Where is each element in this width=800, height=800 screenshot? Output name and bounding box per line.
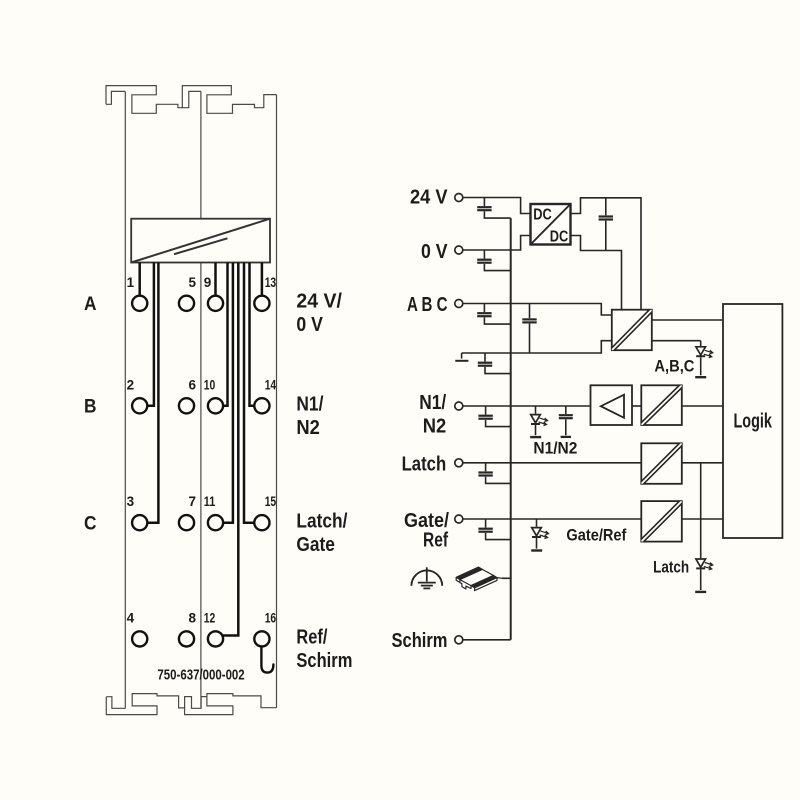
contact 16 — [254, 631, 269, 646]
svg-text:Schirm: Schirm — [296, 650, 352, 672]
wire to contact 9 — [214, 263, 217, 296]
svg-text:A,B,C: A,B,C — [654, 356, 694, 375]
svg-text:Latch/: Latch/ — [296, 511, 347, 533]
wire 0V input — [463, 236, 531, 251]
svg-text:Latch: Latch — [402, 453, 447, 476]
wire Schirm input — [463, 639, 511, 641]
wire 24V input — [463, 198, 531, 214]
terminal ABC — [455, 300, 463, 308]
module middle housing line — [200, 91, 202, 708]
isolation barrier ABC — [612, 310, 652, 351]
svg-text:15: 15 — [265, 494, 277, 509]
wire rail to trunk — [502, 577, 511, 579]
wire Latch input — [463, 462, 642, 464]
svg-text:Gate: Gate — [296, 534, 335, 556]
svg-text:13: 13 — [265, 275, 277, 290]
svg-text:5: 5 — [189, 275, 197, 290]
svg-text:24 V: 24 V — [410, 186, 448, 209]
svg-text:Ref/: Ref/ — [296, 626, 327, 648]
module left housing line — [124, 91, 126, 708]
wire Latch barrier to Logik — [682, 462, 723, 464]
contact 7 — [179, 515, 194, 530]
svg-text:N1/: N1/ — [296, 394, 323, 416]
wire to contact 2 — [148, 263, 154, 406]
terminal Gate/Ref — [455, 515, 463, 523]
wire to contact 1 — [138, 263, 141, 296]
capacitor C3 (ABC to trunk) — [477, 304, 511, 325]
terminal N1/N2 — [455, 402, 463, 410]
contact circles — [132, 296, 269, 647]
svg-text:N1/N2: N1/N2 — [533, 439, 577, 458]
svg-text:16: 16 — [265, 610, 277, 625]
isolation barrier Gate/Ref — [641, 501, 682, 541]
svg-text:10: 10 — [204, 377, 216, 392]
top housing profile outline — [106, 86, 277, 114]
contact 3 — [132, 515, 147, 530]
svg-text:4: 4 — [127, 610, 135, 625]
svg-text:N2: N2 — [296, 417, 320, 439]
bus contact wedge box — [131, 219, 270, 263]
svg-text:Ref: Ref — [423, 528, 448, 551]
svg-text:7: 7 — [189, 494, 197, 509]
svg-text:1: 1 — [127, 275, 135, 290]
bottom housing left foot hook — [106, 697, 125, 709]
wedge main diagonal — [131, 219, 270, 263]
terminal Schirm — [455, 636, 463, 644]
wire to contact 14 — [250, 263, 255, 406]
wedge inner stroke — [174, 238, 228, 254]
isolation barrier N1/N2 — [641, 385, 682, 425]
svg-text:C: C — [84, 512, 97, 534]
ABC reference end tick — [455, 353, 468, 361]
wire to contact 12 — [223, 263, 239, 636]
svg-text:DC: DC — [550, 228, 569, 245]
svg-text:DC: DC — [533, 206, 552, 223]
isolation barrier Latch — [641, 443, 682, 484]
svg-text:Gate/Ref: Gate/Ref — [566, 526, 626, 545]
svg-text:11: 11 — [204, 494, 216, 509]
wire Gate barrier to Logik — [682, 518, 723, 520]
capacitor C10 (N1 line termination) — [559, 406, 573, 437]
svg-text:N1/: N1/ — [419, 391, 446, 414]
contact 13 — [254, 296, 269, 311]
svg-text:6: 6 — [189, 377, 197, 392]
svg-text:B: B — [84, 396, 97, 418]
contact 5 — [179, 296, 194, 311]
wire ABC barrier to Logik — [652, 319, 723, 321]
shield pigtail hook at contact 16 — [261, 647, 273, 673]
terminal 24V — [455, 194, 463, 202]
comparator amp N1/N2 — [591, 385, 633, 425]
wire to contact 13 — [261, 263, 264, 296]
schematic terminal labels — [392, 186, 450, 652]
DIN rail 3D symbol — [456, 567, 502, 591]
svg-text:0 V: 0 V — [296, 314, 323, 336]
contact 15 — [254, 515, 269, 530]
LED A,B,C — [695, 341, 713, 378]
contact 12 — [208, 631, 223, 646]
svg-text:12: 12 — [204, 610, 216, 625]
svg-text:750-637/000-002: 750-637/000-002 — [157, 667, 244, 683]
internal contact wires (thick) — [140, 263, 262, 636]
contact 10 — [208, 398, 223, 413]
capacitor C4 (ABC ref to trunk) — [478, 353, 511, 374]
LED Latch — [695, 559, 713, 592]
internal shield trunk — [510, 218, 512, 640]
svg-text:3: 3 — [127, 494, 135, 509]
module right housing line — [276, 95, 278, 708]
LED Gate/Ref — [531, 519, 548, 551]
DC/DC converter U1 — [531, 204, 571, 245]
module terminal labels — [296, 291, 352, 672]
Logik box U2 — [723, 304, 782, 538]
capacitor C1 (24V to trunk) — [477, 198, 511, 219]
svg-text:14: 14 — [265, 377, 277, 392]
wire Latch LED drop — [700, 463, 702, 559]
row labels — [84, 293, 97, 534]
terminal Latch — [455, 459, 463, 467]
wire ABC input — [463, 304, 612, 316]
capacitor C7 (Latch to trunk) — [478, 463, 510, 484]
top housing middle hook — [182, 91, 201, 107]
capacitor C5 (ABC bridge) — [522, 304, 536, 354]
contact 4 — [132, 631, 147, 646]
contact 9 — [208, 296, 223, 311]
wire DC/DC lower output — [571, 236, 622, 310]
svg-text:9: 9 — [204, 275, 212, 290]
svg-text:N2: N2 — [423, 414, 447, 437]
functional earth ground symbol — [411, 567, 442, 588]
capacitor C8 (Gate to trunk) — [478, 519, 510, 540]
contact numbers — [127, 275, 277, 626]
svg-text:Logik: Logik — [733, 411, 772, 433]
svg-text:Schirm: Schirm — [392, 629, 448, 652]
contact 14 — [254, 398, 269, 413]
capacitor C2 (0V to trunk) — [477, 250, 511, 271]
wire N1 barrier to Logik — [682, 405, 723, 407]
wire amp to barrier — [632, 405, 641, 407]
svg-text:2: 2 — [127, 377, 135, 392]
wire to contact 11 — [223, 263, 233, 523]
terminal 0V — [455, 246, 463, 254]
svg-text:A B C: A B C — [407, 293, 448, 316]
capacitor C9 (DC/DC output) — [599, 198, 613, 251]
input terminals — [455, 194, 463, 644]
wire to contact 15 — [244, 263, 254, 523]
capacitor C6 (N1 to trunk) — [478, 406, 510, 427]
svg-text:Latch: Latch — [653, 557, 689, 576]
wire DC/DC upper output — [571, 198, 642, 310]
wire ABC barrier to LED — [652, 340, 701, 342]
svg-text:24 V/: 24 V/ — [296, 291, 342, 313]
wire N1/N2 input — [463, 405, 591, 407]
bottom housing profile outline — [106, 694, 276, 715]
bottom housing middle notch — [185, 697, 207, 709]
contact 6 — [179, 398, 194, 413]
contact 1 — [132, 296, 147, 311]
contact 11 — [208, 515, 223, 530]
LED N1/N2 — [530, 406, 547, 437]
wire to contact 3 — [148, 263, 159, 523]
svg-text:A: A — [84, 293, 97, 315]
wire Gate/Ref input — [463, 518, 642, 520]
svg-text:8: 8 — [189, 610, 197, 625]
wire ABC reference — [462, 341, 612, 353]
wire to contact 10 — [223, 263, 227, 406]
svg-text:0 V: 0 V — [421, 240, 448, 263]
contact 8 — [179, 631, 194, 646]
contact 2 — [132, 398, 147, 413]
LED name labels — [533, 356, 694, 576]
top housing left foot hook — [106, 91, 125, 104]
